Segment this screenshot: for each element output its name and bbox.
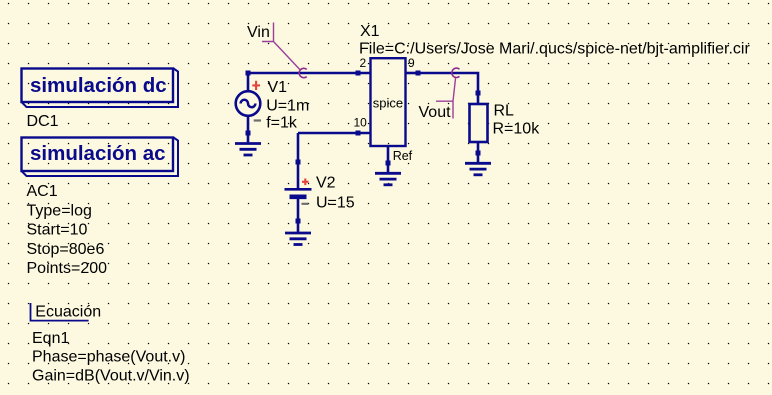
X1 Ref pin — [387, 146, 390, 173]
svg-text:Vin: Vin — [247, 24, 270, 41]
svg-text:X1: X1 — [360, 23, 380, 40]
svg-text:10: 10 — [354, 115, 368, 129]
svg-text:Vout: Vout — [419, 104, 452, 121]
wire corner junction at V1 top — [246, 71, 251, 76]
svg-text:Start=10: Start=10 — [27, 222, 88, 239]
svg-text:Stop=80e6: Stop=80e6 — [27, 241, 105, 258]
svg-text:DC1: DC1 — [27, 113, 59, 130]
wire RL to ground — [477, 142, 480, 163]
wire X1 pin 9 to RL — [418, 73, 478, 104]
ground below Ref — [375, 173, 401, 185]
V2 plus sign — [302, 179, 309, 186]
node dot Ref — [386, 161, 391, 166]
svg-text:simulación dc: simulación dc — [30, 74, 167, 97]
svg-text:9: 9 — [408, 56, 415, 70]
label Vin marker lines — [262, 23, 300, 70]
junction dot below RL — [476, 151, 481, 156]
V2 minus sign — [302, 203, 309, 205]
svg-text:U=15: U=15 — [316, 195, 355, 212]
junction dot above V2 ground — [296, 219, 301, 224]
dc simulation box SIM1 — [22, 69, 179, 108]
wire top: V1 to X1 pin 2 — [248, 72, 370, 75]
spice subcircuit X1 box — [371, 58, 406, 146]
svg-text:U=1m: U=1m — [266, 98, 309, 115]
node dot pin 2 — [356, 71, 361, 76]
svg-text:V2: V2 — [316, 175, 336, 192]
dc source V2 battery — [285, 189, 312, 232]
svg-text:Phase=phase(Vout.v): Phase=phase(Vout.v) — [32, 349, 185, 366]
V1 plus sign — [252, 81, 260, 90]
svg-text:R=10k: R=10k — [493, 121, 541, 138]
node dot pin 9 — [416, 71, 421, 76]
svg-text:f=1k: f=1k — [266, 115, 298, 132]
svg-text:Eqn1: Eqn1 — [32, 330, 69, 347]
svg-text:RL: RL — [494, 102, 515, 119]
svg-text:Ref: Ref — [393, 149, 413, 163]
node dot pin 10 — [356, 131, 361, 136]
svg-text:simulación ac: simulación ac — [30, 142, 166, 165]
svg-text:File=C:/Users/Jose Mari/.qucs/: File=C:/Users/Jose Mari/.qucs/spice-net/… — [359, 40, 750, 57]
label Vout marker lines — [436, 78, 456, 119]
wire V2 vertical — [297, 133, 300, 188]
ac simulation box SIM2 — [22, 138, 179, 177]
node circle Vin — [299, 68, 307, 77]
X1 pin 9 line — [406, 72, 419, 75]
junction dot on V2 wire — [296, 160, 301, 165]
node circle Vout — [452, 68, 460, 77]
V1 minus sign — [254, 119, 261, 121]
svg-text:AC1: AC1 — [27, 183, 58, 200]
svg-text:Points=200: Points=200 — [27, 260, 108, 277]
svg-text:spice: spice — [373, 96, 403, 111]
ground below V1 — [235, 144, 261, 156]
equation component Ecuación — [31, 303, 89, 321]
wire V2 to X1 pin 10 — [298, 132, 370, 135]
junction dot on V1 ground wire — [246, 131, 251, 136]
svg-text:V1: V1 — [268, 79, 288, 96]
junction dot above RL — [476, 91, 481, 96]
svg-text:2: 2 — [360, 56, 367, 70]
ground below RL — [465, 163, 491, 175]
svg-text:Type=log: Type=log — [27, 202, 92, 219]
resistor RL — [470, 104, 488, 142]
voltage source V1 — [236, 73, 261, 143]
svg-text:Gain=dB(Vout.v/Vin.v): Gain=dB(Vout.v/Vin.v) — [32, 367, 190, 384]
ground below V2 — [285, 233, 311, 245]
svg-text:Ecuación: Ecuación — [35, 303, 101, 320]
